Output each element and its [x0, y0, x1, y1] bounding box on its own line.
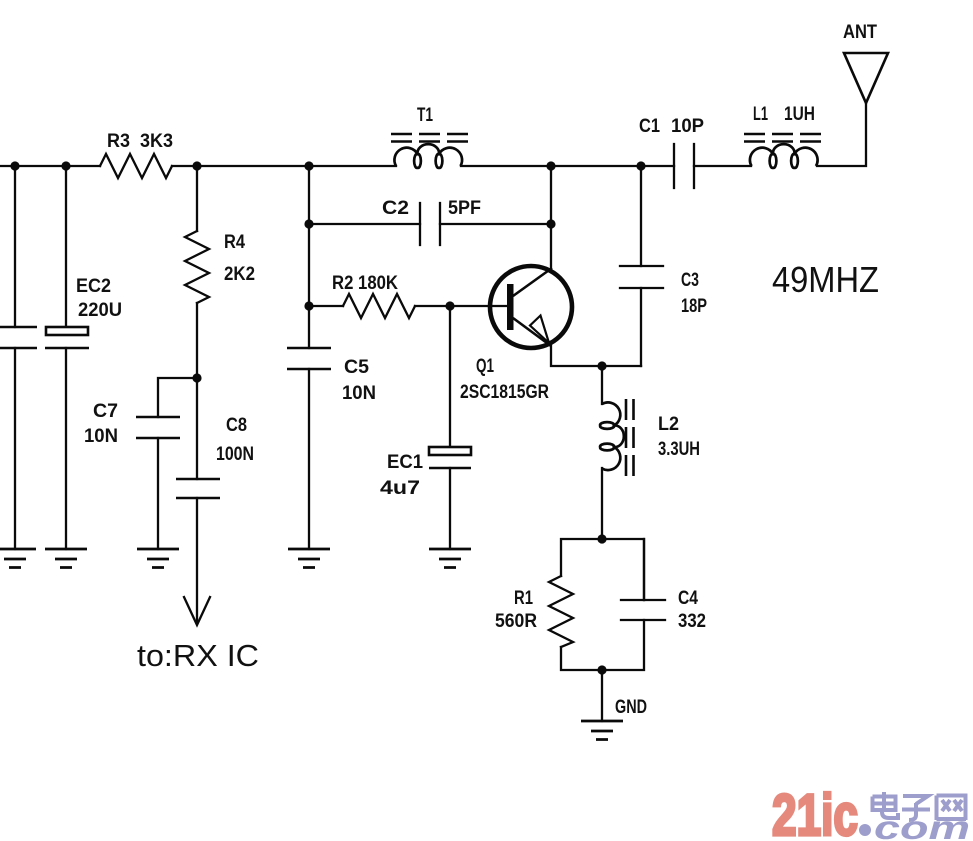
svg-text:220U: 220U [78, 300, 122, 321]
wire R1 C4 top [561, 539, 644, 600]
transistor Q1 [490, 266, 572, 348]
capacitor C8 plates [176, 479, 220, 498]
capacitor EC2 plates [46, 327, 88, 335]
svg-text:2K2: 2K2 [224, 264, 255, 285]
svg-text:C3: C3 [681, 270, 699, 291]
svg-text:R1: R1 [514, 588, 533, 609]
svg-text:C2: C2 [382, 198, 409, 219]
node emitter L2 [597, 361, 606, 370]
svg-text:10N: 10N [342, 383, 376, 404]
svg-text:ANT: ANT [843, 22, 877, 43]
svg-text:49MHZ: 49MHZ [772, 259, 879, 300]
capacitor C4 [621, 600, 665, 620]
svg-text:4u7: 4u7 [380, 478, 420, 499]
capacitor C7 plates [136, 417, 180, 438]
wire rail L1 to antenna corner [817, 104, 866, 166]
node L2 R1 C4 [597, 534, 606, 543]
svg-text:3.3UH: 3.3UH [658, 439, 700, 460]
arrow to RX IC [184, 597, 210, 625]
svg-text:EC2: EC2 [76, 276, 111, 297]
capacitor C4 leads bottom wire [561, 539, 644, 670]
svg-text:5PF: 5PF [448, 198, 481, 219]
svg-text:Q1: Q1 [476, 356, 494, 377]
wire rail T1 to C1 [461, 165, 674, 167]
capacitor EC1 plates [429, 447, 471, 455]
capacitor EC1 leads [449, 306, 451, 549]
svg-text:C7: C7 [93, 401, 118, 422]
svg-text:R4: R4 [224, 232, 245, 253]
node rail C2 branch [304, 161, 313, 170]
node rail x66 [61, 161, 70, 170]
node C2 right [546, 219, 555, 228]
wire C2 row [309, 223, 551, 225]
inductor L1 [744, 134, 823, 168]
wire rail C1 to L1 [694, 165, 751, 167]
capacitor C1 [674, 144, 694, 188]
svg-text:C8: C8 [226, 415, 247, 436]
capacitor C9 left edge vertical leads [14, 166, 16, 549]
capacitor C7 leads [157, 438, 159, 549]
capacitor C3 leads [640, 166, 642, 366]
svg-text:2SC1815GR: 2SC1815GR [460, 382, 549, 403]
node rail collector [546, 161, 555, 170]
watermark CJK dian zi wang [873, 792, 967, 820]
svg-text:L1: L1 [753, 104, 768, 125]
svg-text:21ic: 21ic [772, 783, 858, 841]
resistor R4 bottom lead [196, 303, 198, 378]
svg-text:1UH: 1UH [784, 104, 815, 125]
svg-text:R2 180K: R2 180K [332, 273, 398, 294]
wire rail R3 to T1 [172, 165, 396, 167]
transformer T1 [391, 134, 469, 168]
svg-text:18P: 18P [681, 296, 707, 317]
ground symbol EC1 [429, 549, 471, 568]
capacitor EC2 vertical leads [65, 166, 67, 549]
inductor L2 [600, 399, 633, 478]
svg-text:332: 332 [678, 611, 706, 632]
wire R2 left lead [309, 305, 343, 307]
capacitor C3 [620, 266, 663, 288]
node base EC1 [445, 301, 454, 310]
wire C7 branch [158, 378, 197, 417]
wire R2 to base [415, 305, 507, 307]
capacitor C9 plates [0, 327, 471, 498]
svg-text:EC1: EC1 [387, 452, 423, 473]
node C7 C8 [192, 373, 201, 382]
svg-text:com: com [874, 809, 970, 841]
resistor R4 [185, 231, 209, 303]
node R2 left [304, 301, 313, 310]
antenna ANT [844, 53, 888, 103]
svg-text:10N: 10N [84, 426, 118, 447]
capacitor C2 [420, 203, 440, 245]
svg-text:to:RX IC: to:RX IC [137, 638, 259, 673]
wire emitter to L2 node [551, 345, 641, 366]
resistor R2 [343, 294, 415, 318]
resistor R4 top lead [196, 166, 198, 231]
resistor R3 [100, 154, 172, 178]
watermark dot [859, 824, 871, 836]
ground symbol EC2 [45, 549, 87, 568]
svg-text:C4: C4 [678, 588, 698, 609]
inductor L2 leads [601, 366, 603, 539]
ground symbol C7 [137, 549, 179, 568]
svg-text:C5: C5 [344, 357, 369, 378]
svg-text:100N: 100N [216, 444, 254, 465]
wire C2 R2 C5 branch vertical [308, 166, 310, 549]
svg-text:GND: GND [615, 697, 647, 718]
resistor R1 [549, 576, 573, 647]
capacitor C5 plates [287, 348, 331, 369]
svg-text:L2: L2 [658, 414, 679, 435]
node R1 C4 gnd [597, 665, 606, 674]
wire main rail left segment [0, 165, 100, 167]
svg-text:T1: T1 [417, 105, 433, 126]
wire GND lead [601, 670, 603, 721]
node rail x15 [10, 161, 19, 170]
svg-text:C1: C1 [639, 116, 660, 137]
node rail R4 [192, 161, 201, 170]
ground symbol GND [581, 721, 623, 740]
node rail C3 [636, 161, 645, 170]
capacitor C8 leads [196, 378, 198, 622]
node C2 left [304, 219, 313, 228]
ground symbol left C9 [0, 549, 623, 740]
svg-text:R3 3K3: R3 3K3 [107, 131, 173, 152]
svg-text:10P: 10P [671, 116, 704, 137]
ground symbol C5 [288, 549, 330, 568]
wire collector vertical [550, 166, 552, 269]
svg-text:560R: 560R [495, 611, 537, 632]
